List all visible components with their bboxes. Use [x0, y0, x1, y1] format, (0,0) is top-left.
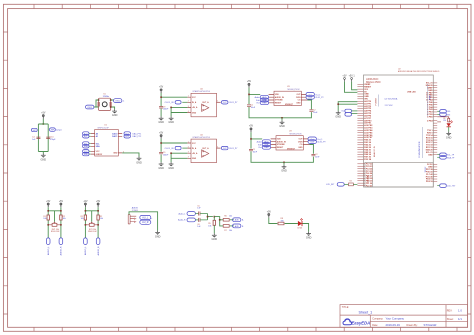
- net port DAC_PY2 (U1 right): [124, 135, 130, 138]
- svg-text:+5V 1: +5V 1: [349, 75, 356, 77]
- title block texts: [342, 306, 454, 327]
- net port TAMPER (right): [50, 128, 56, 131]
- svg-text:AU_L: AU_L: [142, 217, 149, 220]
- MSGEQ7 stage U6 (bottom): [249, 126, 326, 173]
- op-amp stage U5 (bottom): [158, 132, 238, 170]
- IC U1 left pin names: [96, 132, 103, 156]
- svg-text:DIGITAL: DIGITAL: [366, 174, 369, 183]
- net port PWM3 (arduino right): [440, 113, 447, 117]
- wire crystal bottom-right to ground: [111, 107, 115, 109]
- LED D2: [298, 221, 302, 226]
- power flag +5V (battery box): [41, 112, 46, 118]
- net port A_0 (U1 left): [83, 132, 89, 135]
- wire LED to ground: [448, 127, 450, 132]
- net port A_1 (U1 left): [83, 135, 89, 138]
- ground (arduino): [335, 111, 341, 119]
- Arduino left pin names: [364, 84, 373, 187]
- svg-text:GND: GND: [113, 153, 118, 155]
- wire +5V to box top: [42, 119, 44, 124]
- wire crystal right to port: [111, 99, 114, 101]
- Arduino U2 body: [364, 75, 434, 187]
- svg-text:STXAsGR: STXAsGR: [424, 323, 437, 327]
- svg-text:3V3: 3V3: [447, 114, 450, 116]
- svg-text:220: 220: [443, 120, 446, 122]
- svg-text:A_1: A_1: [84, 135, 87, 138]
- svg-text:Sheet_1: Sheet_1: [359, 310, 373, 314]
- svg-text:4: 4: [123, 151, 124, 153]
- svg-text:ANALOG IN: ANALOG IN: [373, 146, 376, 157]
- wire mixer to divider: [214, 217, 223, 226]
- ground (mixer): [212, 233, 218, 241]
- frame ruler labels: [0, 0, 1, 1]
- Arduino lower-left pin comb: [357, 164, 365, 186]
- svg-text:TX RX: TX RX: [425, 166, 427, 173]
- ground (crystal): [112, 109, 118, 117]
- svg-text:Out: Out: [341, 110, 345, 113]
- svg-text:5V0: 5V0: [447, 111, 450, 113]
- wire jack sleeve to ground: [129, 212, 158, 231]
- wire +3V3 to pin: [345, 82, 358, 93]
- svg-text:TITLE:: TITLE:: [342, 306, 350, 309]
- MSGEQ7 stage U3 (top): [247, 81, 324, 128]
- net port DAC_PY1 (U1 right): [124, 132, 130, 135]
- ground (arduino LED): [446, 132, 452, 140]
- svg-text:R6: R6: [224, 216, 226, 218]
- title block outline: [340, 305, 468, 328]
- svg-text:SDA_TF: SDA_TF: [447, 157, 455, 160]
- svg-text:LCD_TXT: LCD_TXT: [447, 186, 456, 188]
- svg-text:SDA: SDA: [96, 145, 101, 148]
- capacitor C6 (mixer bottom): [199, 218, 200, 222]
- svg-text:-1: -1: [123, 101, 125, 103]
- Arduino left pin comb: [357, 84, 363, 159]
- svg-text:32MHz: 32MHz: [103, 96, 109, 98]
- svg-text:VCC: VCC: [96, 151, 101, 153]
- svg-text:R7: R7: [224, 230, 226, 232]
- node crystal top-right: [110, 99, 112, 101]
- crystal X1 body: [99, 98, 111, 110]
- net port LCD_TXT (arduino bottom right): [440, 184, 447, 188]
- svg-text:PD3 18: PD3 18: [426, 181, 434, 183]
- resistor R9 (led series): [437, 117, 449, 119]
- capacitor C4 (left rail): [36, 137, 40, 138]
- svg-text:A0: A0: [96, 132, 98, 135]
- svg-text:2019-09-19: 2019-09-19: [386, 323, 401, 327]
- net port audio A1 (arduino): [345, 113, 352, 117]
- svg-text:EasyEDA: EasyEDA: [352, 321, 371, 326]
- svg-text:Audio_R: Audio_R: [178, 219, 186, 222]
- connector J1 contacts: [130, 216, 136, 221]
- svg-text:2 PE4: 2 PE4: [427, 119, 433, 122]
- resistor R7 (divider bottom): [223, 225, 229, 228]
- svg-text:Sheet:: Sheet:: [447, 318, 454, 321]
- Arduino right pin names: [426, 83, 434, 184]
- svg-text:c: c: [151, 218, 152, 220]
- IC U1 right pins: [118, 134, 122, 153]
- ground (U1): [136, 157, 142, 165]
- svg-text:AUD: AUD: [235, 219, 240, 222]
- LED D1 (arduino): [447, 123, 451, 126]
- big port ovals (jack nets): [140, 215, 151, 219]
- wire crystal left to port: [94, 100, 99, 107]
- svg-text:PG2 38: PG2 38: [364, 159, 372, 161]
- svg-text:DAC_PY1: DAC_PY1: [133, 132, 142, 135]
- net port OSC2 (right of crystal): [114, 99, 122, 103]
- wire +5V to pin: [352, 82, 358, 90]
- svg-text:PWM: PWM: [429, 95, 431, 100]
- svg-text:GND5V: GND5V: [96, 154, 103, 156]
- net port SDA_TF (U1 left): [83, 145, 89, 148]
- svg-text:Drawn By:: Drawn By:: [407, 324, 418, 327]
- potentiometer circuit 2: [81, 201, 103, 256]
- net port (divider top out): [233, 218, 241, 222]
- svg-text:DAC0: DAC0: [112, 132, 117, 135]
- svg-text:Date:: Date:: [372, 324, 378, 327]
- svg-text:Audio_L: Audio_L: [178, 212, 185, 215]
- svg-text:GND: GND: [428, 154, 433, 156]
- svg-text:3 PE5: 3 PE5: [427, 116, 433, 118]
- wire +5V to resistor: [269, 218, 309, 232]
- wire mixer junction: [208, 214, 213, 220]
- svg-text:A1: A1: [96, 135, 98, 138]
- net port OSC (left of crystal): [86, 105, 94, 109]
- svg-text:PL3 31: PL3 31: [366, 185, 373, 187]
- wire arduino GND pins: [338, 102, 357, 111]
- svg-text:0-5 VDC/30mA: 0-5 VDC/30mA: [385, 98, 398, 101]
- net port VCC5 (U1 left): [83, 150, 89, 153]
- net port SCL_TF (arduino right): [440, 153, 447, 157]
- svg-text:7-12 VDC: 7-12 VDC: [385, 105, 394, 107]
- svg-text:SCL_TF: SCL_TF: [447, 155, 455, 157]
- svg-text:DC2: DC2: [126, 136, 129, 138]
- svg-text:POWER: POWER: [375, 97, 377, 105]
- node crystal top-left: [98, 99, 100, 101]
- node: box top junction: [43, 123, 45, 125]
- svg-text:470pF: 470pF: [50, 139, 56, 141]
- svg-text:10k: 10k: [208, 225, 211, 227]
- svg-text:AU_R: AU_R: [142, 221, 149, 224]
- svg-text:COMMUNICATION: COMMUNICATION: [418, 141, 421, 158]
- ground (battery box): [41, 154, 47, 162]
- svg-text:VBT: VBT: [33, 130, 36, 132]
- net port GNDD (U1 left): [83, 152, 89, 155]
- wire U1 GND pin to ground: [122, 153, 139, 157]
- power flag +3V3 (arduino): [342, 75, 347, 81]
- svg-text:DAC1: DAC1: [112, 135, 117, 138]
- svg-text:OSC2: OSC2: [115, 101, 120, 103]
- op-amp stage U4 (top): [158, 87, 238, 125]
- net port (divider bottom out): [233, 224, 241, 228]
- svg-text:USB LED: USB LED: [407, 91, 416, 93]
- net port SCL_TF (U1 left): [83, 142, 89, 145]
- power flag +5V (LED): [267, 211, 272, 217]
- svg-text:DAC_PY2: DAC_PY2: [133, 135, 142, 138]
- ground (LED): [306, 232, 312, 240]
- svg-text:AUD: AUD: [235, 225, 240, 228]
- svg-text:Your Company: Your Company: [386, 317, 405, 321]
- svg-text:R4: R4: [350, 181, 352, 183]
- svg-text:ARDUINO MEGA 2560 REV3 SPECTRU: ARDUINO MEGA 2560 REV3 SPECTRUM SHIELD: [398, 70, 440, 73]
- potentiometer circuit 1: [43, 201, 65, 256]
- svg-text:10k: 10k: [229, 216, 232, 218]
- svg-text:REV:: REV:: [447, 310, 453, 313]
- svg-text:1/1: 1/1: [458, 317, 462, 321]
- Arduino right pin comb: [433, 83, 437, 182]
- svg-text:10k: 10k: [229, 230, 232, 232]
- svg-text:LCD_INT: LCD_INT: [326, 184, 335, 186]
- IC U1 body: [95, 130, 119, 157]
- EasyEDA logo: [343, 318, 371, 325]
- wire box outline (left/right rails): [38, 124, 48, 154]
- svg-text:1.0: 1.0: [458, 309, 462, 313]
- net port VBAT (left): [31, 128, 37, 131]
- Arduino digital header sub-box: [365, 162, 433, 187]
- net port PWM5 (arduino right): [440, 110, 447, 114]
- power flag +5V (arduino): [349, 75, 356, 81]
- ground (jack): [155, 231, 161, 239]
- net port SDA_TF (arduino right): [440, 156, 447, 160]
- svg-text:OSC1: OSC1: [87, 107, 92, 109]
- capacitor C10 (right rail): [46, 137, 50, 138]
- IC U1 left pins: [91, 134, 95, 155]
- svg-text:LED2: LED2: [298, 228, 303, 230]
- svg-text:tamper: tamper: [56, 129, 62, 132]
- wire lcd int: [344, 183, 357, 185]
- connector J1 body: [128, 215, 130, 224]
- svg-text:+3V: +3V: [342, 75, 347, 77]
- svg-text:Company:: Company:: [372, 318, 383, 321]
